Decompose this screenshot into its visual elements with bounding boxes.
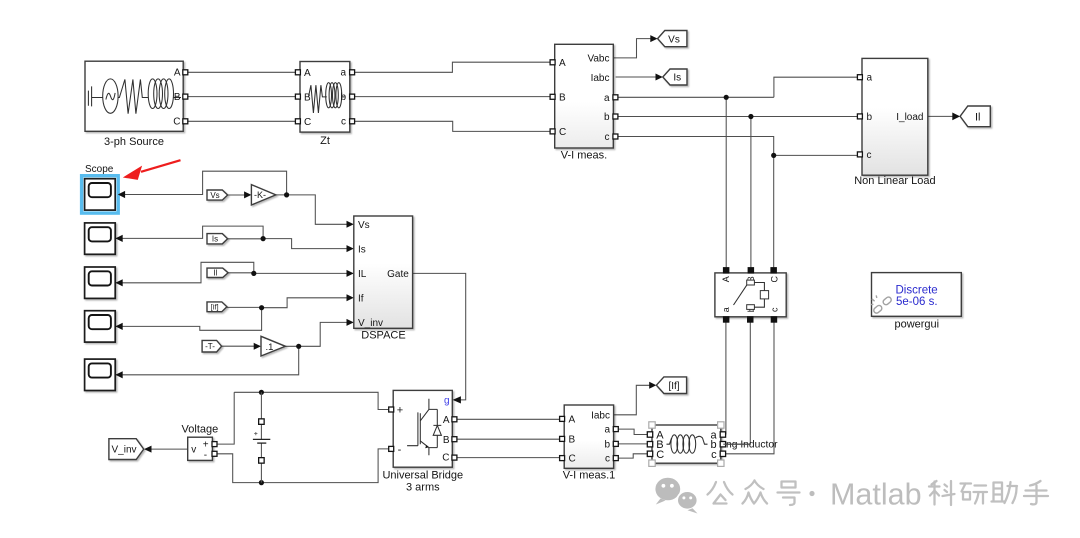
block V-I meas.1 [560, 405, 619, 482]
wire row5 junction down to scope5 [115, 346, 298, 375]
junction dot row4 [259, 305, 264, 310]
svg-text:.1: .1 [266, 342, 274, 353]
block Non Linear Load [854, 58, 935, 186]
svg-text:+: + [397, 404, 403, 416]
junction dot DC top [259, 390, 264, 395]
scope2 [85, 223, 123, 254]
wire V-I meas.1 a to inductor A [616, 429, 650, 434]
block DSPACE [354, 216, 413, 341]
from tag Vs [207, 190, 228, 200]
svg-text:b: b [867, 112, 873, 123]
wire bus phase b [616, 116, 862, 118]
wire Zt b to V-I meas B [352, 96, 552, 98]
gain 1 [261, 336, 285, 356]
svg-text:g: g [444, 396, 450, 407]
svg-text:C: C [442, 453, 449, 464]
svg-text:C: C [559, 127, 566, 138]
wire bridge B to V-I meas.1 B [453, 438, 563, 440]
svg-text:A: A [569, 414, 576, 425]
wire bus phase a [616, 77, 862, 97]
svg-text:a: a [604, 93, 610, 104]
svg-text:a: a [867, 73, 873, 84]
svg-text:-T-: -T- [205, 342, 215, 351]
label Coupling Inductor partial [723, 440, 778, 451]
wire V-I meas.1 Iabc to If goto [614, 382, 657, 415]
wire voltage minus to DC bottom rail [215, 449, 391, 483]
from tag Is [207, 234, 228, 244]
wire V-I meas.1 c to inductor C [616, 454, 650, 458]
goto tag Il [960, 106, 990, 127]
wire junction to DSPACE Is [263, 239, 354, 253]
goto tag V_inv [109, 439, 144, 460]
svg-text:5e-06 s.: 5e-06 s. [896, 296, 938, 308]
svg-text:-K-: -K- [254, 190, 266, 200]
wire breaker column C [773, 155, 775, 267]
junction dot bus a [724, 95, 729, 100]
svg-text:c: c [867, 150, 872, 161]
svg-text:DSPACE: DSPACE [361, 329, 405, 341]
junction dot bus c [771, 153, 776, 158]
block powergui [871, 273, 962, 331]
from tag If [207, 302, 227, 312]
svg-text:V-I meas.: V-I meas. [561, 150, 607, 162]
svg-text:C: C [304, 117, 311, 128]
svg-text:C: C [173, 117, 180, 128]
svg-text:a: a [340, 68, 346, 79]
wire source A to Zt A [188, 71, 298, 73]
wire I_load to Il goto [928, 113, 960, 121]
svg-text:V_inv: V_inv [358, 318, 383, 329]
svg-text:Iabc: Iabc [591, 410, 610, 421]
junction dot row2 [261, 236, 266, 241]
wire junction to DSPACE If [262, 294, 354, 307]
wire breaker column A [725, 97, 727, 267]
junction dot bus b [748, 114, 753, 119]
junction dot row5 [296, 344, 301, 349]
svg-text:Is: Is [212, 235, 218, 244]
svg-text:B: B [569, 434, 576, 445]
wire breaker column B [750, 117, 752, 268]
wire -T- from-tag to gain 1 [222, 343, 261, 350]
svg-text:[If]: [If] [668, 381, 679, 392]
wire row2 loop to scope2 [115, 226, 263, 239]
goto tag If [656, 377, 686, 394]
svg-text:[If]: [If] [211, 305, 219, 312]
block 3-ph Source [85, 61, 188, 148]
wire inductor c to breaker c [723, 322, 774, 454]
scope5 [85, 359, 123, 390]
svg-text:C: C [569, 454, 576, 465]
wire Il from-tag to junction [228, 272, 254, 274]
scope1 selected highlight [82, 176, 119, 213]
svg-text:b: b [340, 92, 346, 103]
svg-text:C: C [770, 275, 780, 282]
wire row3 loop to scope3 [115, 262, 253, 283]
svg-text:Discrete: Discrete [896, 284, 938, 296]
block Zt [295, 62, 354, 148]
svg-text:Iabc: Iabc [591, 73, 610, 84]
svg-text:V_inv: V_inv [111, 445, 136, 456]
wire Vs from-tag to gain K [228, 191, 252, 198]
goto tag Is [663, 69, 687, 85]
svg-text:Is: Is [673, 73, 681, 84]
scope4 [85, 311, 123, 342]
wire Iabc to Is goto [616, 74, 663, 81]
wire DC top rail to bridge plus [234, 392, 391, 409]
svg-text:a: a [721, 307, 731, 312]
svg-text:Il: Il [975, 112, 981, 124]
svg-text:-: - [204, 450, 207, 461]
block Universal Bridge [382, 390, 463, 493]
wire gain K to DSPACE Vs [276, 195, 354, 228]
svg-text:Voltage: Voltage [182, 423, 219, 435]
svg-text:If: If [358, 293, 364, 304]
wire Zt a to V-I meas A [352, 62, 552, 72]
wire junction to DSPACE IL [254, 270, 354, 277]
wire source C to Zt C [188, 120, 298, 122]
watermark wechat icon [655, 478, 697, 514]
wire inductor b to breaker b [723, 322, 750, 444]
selection handles coupling inductor [649, 422, 724, 467]
svg-text:B: B [304, 92, 311, 103]
junction dot row1 [284, 192, 289, 197]
svg-text:C: C [656, 449, 664, 461]
block V-I meas. [550, 44, 618, 161]
svg-text:Gate: Gate [387, 269, 409, 280]
wire row4 loop to scope4 [115, 308, 261, 331]
junction dot row3 [251, 271, 256, 276]
svg-text:Zt: Zt [320, 135, 330, 147]
goto tag Vs [658, 31, 687, 47]
annotation red arrow [123, 160, 181, 180]
wire bus phase c [616, 137, 862, 156]
svg-text:Vs: Vs [668, 34, 680, 45]
svg-text:v: v [191, 445, 196, 456]
capacitor C dc-link branch [253, 392, 270, 482]
wire bridge C to V-I meas.1 C [453, 457, 563, 459]
svg-text:c: c [341, 117, 346, 128]
svg-text:b: b [604, 439, 610, 450]
svg-text:Non Linear Load: Non Linear Load [854, 175, 935, 187]
svg-text:3-ph Source: 3-ph Source [104, 136, 164, 148]
wire Is from-tag to junction [228, 238, 264, 240]
wire bridge A to V-I meas.1 A [453, 418, 563, 420]
block Coupling Inductor [647, 425, 725, 463]
svg-text:IL: IL [358, 269, 367, 280]
scope3 [85, 267, 123, 298]
svg-text:3 arms: 3 arms [406, 481, 440, 493]
wire Vabc to Vs goto [613, 35, 657, 58]
wire inductor a to breaker a [723, 322, 726, 434]
wire row1 loop to scope1 [118, 171, 287, 195]
scope1 [85, 164, 126, 210]
wire voltage plus to DC top rail [215, 392, 235, 444]
block Three-Phase Breaker [715, 268, 786, 323]
wire voltage v to V_inv goto [144, 446, 188, 453]
svg-text:c: c [770, 307, 780, 312]
svg-text:ng Inductor: ng Inductor [726, 440, 778, 451]
block Voltage Measurement [182, 423, 219, 460]
svg-text:b: b [604, 112, 610, 123]
watermark text [708, 481, 1049, 506]
wire Zt c to V-I meas C [352, 121, 552, 131]
svg-text:B: B [559, 92, 566, 103]
wire V-I meas.1 b to inductor B [616, 443, 650, 445]
svg-text:a: a [604, 425, 610, 436]
watermark dot and Matlab [809, 478, 921, 512]
svg-text:Vs: Vs [210, 191, 219, 200]
wire source B to Zt B [188, 96, 298, 98]
svg-text:Is: Is [358, 244, 366, 255]
svg-text:Scope: Scope [85, 164, 114, 175]
svg-text:I_load: I_load [896, 112, 923, 123]
svg-text:Universal Bridge: Universal Bridge [382, 469, 463, 481]
wire If from-tag to junction [227, 306, 262, 308]
svg-text:c: c [711, 449, 717, 461]
svg-text:B: B [174, 92, 181, 103]
svg-text:Matlab: Matlab [830, 478, 922, 512]
svg-text:A: A [304, 68, 311, 79]
wire DSPACE Gate to bridge g [413, 273, 466, 403]
svg-text:powergui: powergui [894, 318, 939, 330]
svg-text:V-I meas.1: V-I meas.1 [563, 470, 616, 482]
gain K [251, 185, 275, 205]
svg-text:B: B [443, 435, 450, 446]
svg-text:A: A [721, 276, 731, 282]
from tag Il [207, 268, 228, 278]
wire gain 1 to DSPACE V_inv [285, 319, 353, 346]
svg-text:A: A [443, 415, 450, 426]
junction dot DC bottom [259, 480, 264, 485]
svg-text:c: c [605, 454, 610, 465]
svg-text:c: c [605, 132, 610, 143]
svg-text:Vabc: Vabc [587, 53, 609, 64]
svg-text:A: A [559, 58, 566, 69]
svg-text:A: A [174, 68, 181, 79]
svg-text:Il: Il [213, 269, 217, 278]
svg-text:-: - [398, 444, 402, 456]
svg-text:Vs: Vs [358, 220, 370, 231]
from tag -T- [202, 340, 222, 352]
